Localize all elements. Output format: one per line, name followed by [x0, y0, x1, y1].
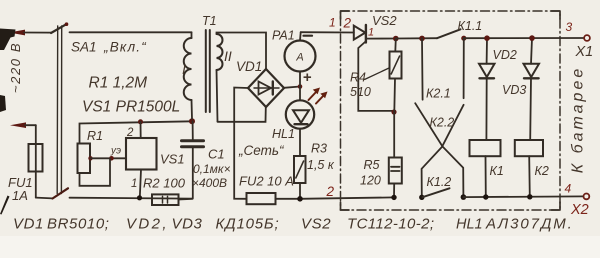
wire top rail from SA1 to T1 primary	[70, 31, 192, 33]
node junction dot VD3 top	[529, 35, 535, 41]
svg-text:FU2 10 А: FU2 10 А	[239, 174, 294, 189]
wire rail VS2 to K1.1	[396, 37, 437, 39]
wire R2 to C1 bottom	[179, 198, 193, 201]
svg-text:VD3: VD3	[172, 216, 203, 233]
contact K2.2 wire	[463, 38, 465, 98]
resistor R2	[152, 194, 179, 205]
svg-text:К2.2: К2.2	[430, 116, 455, 130]
svg-text:4: 4	[565, 182, 572, 196]
resistor R5	[389, 112, 402, 197]
svg-text:2: 2	[343, 16, 352, 31]
node junction dot K2 bottom	[527, 194, 532, 199]
PA1 minus polarity mark	[304, 35, 313, 37]
svg-text:К батарее: К батарее	[570, 66, 587, 174]
svg-text:VD3: VD3	[502, 83, 526, 97]
node junction dot VD2 top	[484, 35, 490, 41]
switch SA1 linkage	[57, 26, 62, 194]
contact K1.1 blade	[437, 29, 461, 38]
svg-text:R1: R1	[87, 129, 103, 143]
svg-text:„Вкл.“: „Вкл.“	[103, 40, 147, 55]
svg-text:РА1: РА1	[272, 29, 295, 43]
svg-text:С1: С1	[208, 147, 225, 162]
resistor R1	[78, 144, 91, 174]
node junction dot gate wire	[109, 156, 114, 161]
mains input arrow top (~220V)	[9, 30, 51, 36]
wire VS1 pin2	[140, 122, 142, 138]
svg-text:×400В: ×400В	[192, 176, 227, 190]
contact K2.1 wire	[421, 38, 424, 99]
svg-text:VS1: VS1	[160, 152, 185, 167]
svg-text:BR5010;: BR5010;	[47, 216, 110, 233]
svg-text:К2.1: К2.1	[426, 87, 451, 101]
svg-text:АЛ307ДМ.: АЛ307ДМ.	[485, 216, 574, 233]
node junction dot R3 bottom	[297, 196, 303, 202]
transformer T1 core	[206, 30, 210, 112]
R1 wiper junction dot	[88, 156, 92, 160]
transformer T1 secondary winding II	[217, 33, 267, 122]
svg-text:R5: R5	[364, 158, 380, 172]
svg-text:VS2: VS2	[372, 13, 397, 28]
svg-text:~220 В: ~220 В	[8, 42, 23, 93]
wire FU1 to SA1 bottom pole	[36, 197, 53, 200]
transformer T1 primary winding I	[184, 32, 192, 119]
svg-text:VD1: VD1	[13, 216, 44, 233]
svg-text:120: 120	[360, 174, 381, 188]
relay coil K2	[515, 140, 543, 197]
node junction dot R4 top	[393, 36, 399, 42]
svg-text:К1: К1	[490, 164, 504, 178]
thyristor VS1 (box)	[126, 138, 157, 170]
svg-text:К1.2: К1.2	[427, 175, 452, 189]
node junction dot K1.2 left	[419, 195, 424, 200]
contact K1.2 blade	[423, 188, 450, 197]
svg-text:1А: 1А	[12, 188, 28, 203]
wire VS2 gate	[358, 42, 394, 111]
svg-text:VD2: VD2	[493, 48, 517, 62]
svg-text:К2: К2	[535, 164, 549, 178]
wire VS1 pin1	[140, 170, 141, 198]
terminal X2 circle	[584, 194, 590, 200]
svg-text:„Сеть“: „Сеть“	[238, 143, 285, 158]
svg-text:R2 100: R2 100	[143, 176, 186, 191]
svg-text:I: I	[182, 61, 186, 77]
svg-text:II: II	[224, 48, 232, 64]
svg-text:Х1: Х1	[575, 44, 594, 60]
svg-text:2: 2	[126, 127, 134, 139]
svg-text:VS2: VS2	[301, 216, 331, 233]
switch SA1 bottom pole blade	[53, 188, 69, 198]
svg-text:SA1: SA1	[71, 40, 97, 55]
node junction dot K1 bottom	[483, 194, 488, 199]
svg-text:VD2,: VD2,	[126, 216, 169, 233]
charger block dash-dot border	[341, 11, 561, 210]
HL1 emission arrows	[309, 88, 328, 104]
svg-text:VD1: VD1	[236, 59, 262, 74]
svg-text:510: 510	[350, 85, 371, 99]
wire R1 bottom loop to gate node	[80, 159, 111, 186]
svg-text:КД105Б;: КД105Б;	[216, 216, 280, 233]
node junction dot K1.2 fixed	[461, 194, 467, 200]
svg-text:К1.1: К1.1	[458, 19, 483, 33]
switch SA1 top pole blade	[51, 24, 67, 33]
wire secondary bottom to bridge bottom	[218, 107, 266, 122]
wire crossover arm B (K2.2 blade to bottom left)	[422, 105, 464, 198]
wire PA1 to VS2 anode	[301, 31, 354, 33]
wire R1 wiper to VS1 gate	[91, 157, 127, 159]
svg-text:1,5 к: 1,5 к	[307, 158, 335, 172]
svg-text:ТС112-10-2;: ТС112-10-2;	[347, 216, 435, 233]
svg-text:+: +	[303, 69, 312, 86]
svg-text:HL1: HL1	[456, 217, 483, 233]
relay coil K1	[470, 140, 501, 197]
fuse FU2	[247, 193, 301, 204]
wire bridge minus to bottom rail	[234, 88, 248, 199]
wire bottom rail K1.2 to X2	[463, 195, 583, 198]
node junction dot gate/R4/R5	[391, 109, 396, 114]
terminal X1 circle	[584, 35, 590, 41]
LED HL1	[286, 87, 314, 157]
node junction dot R5 bottom	[391, 195, 396, 200]
node junction dot VS1 pin1 on rail	[137, 195, 142, 200]
node junction dot K2.1 top	[419, 36, 425, 42]
svg-text:R4: R4	[350, 71, 366, 85]
svg-text:R1 1,2М: R1 1,2М	[89, 75, 148, 92]
thyristor VS2	[354, 25, 396, 43]
svg-text:R3: R3	[311, 142, 327, 156]
resistor R4	[390, 39, 402, 113]
wire crossover arm A (K2.1 blade to bottom right)	[415, 103, 463, 197]
diode VD3	[524, 38, 540, 140]
wire bottom rail to block entry 2	[300, 197, 394, 198]
node junction dot K1.1 fixed	[461, 36, 466, 41]
svg-text:2: 2	[326, 184, 335, 199]
svg-text:Т1: Т1	[202, 14, 217, 28]
svg-text:3: 3	[566, 20, 573, 34]
bridge rectifier VD1	[248, 69, 284, 107]
capacitor C1	[182, 121, 204, 198]
svg-text:1: 1	[368, 27, 374, 39]
wire bridge plus to PA1/HL1 node	[284, 87, 300, 88]
wire rail K1.1 to X1	[464, 37, 584, 39]
mains input arrow bottom (~220V)	[10, 122, 36, 128]
resistor R3	[294, 156, 306, 199]
node junction dot primary bottom	[189, 118, 195, 124]
svg-text:1: 1	[329, 16, 336, 30]
svg-text:1: 1	[131, 178, 137, 190]
wire bottom rail primary side	[70, 197, 193, 200]
svg-text:HL1: HL1	[272, 127, 295, 141]
diode VD2	[479, 38, 495, 140]
R4 label pointer	[365, 68, 390, 80]
wire R1 top to primary-bottom node	[80, 121, 193, 143]
svg-text:VS1 PR1500L: VS1 PR1500L	[82, 99, 180, 116]
svg-text:0,1мк×: 0,1мк×	[193, 162, 231, 176]
node junction dot plus	[298, 84, 303, 89]
ammeter PA1	[285, 32, 316, 86]
fuse FU1	[29, 125, 43, 197]
svg-text:уэ: уэ	[110, 146, 121, 157]
svg-text:А: А	[295, 52, 303, 64]
node junction dot VS1 pin2	[138, 119, 143, 124]
